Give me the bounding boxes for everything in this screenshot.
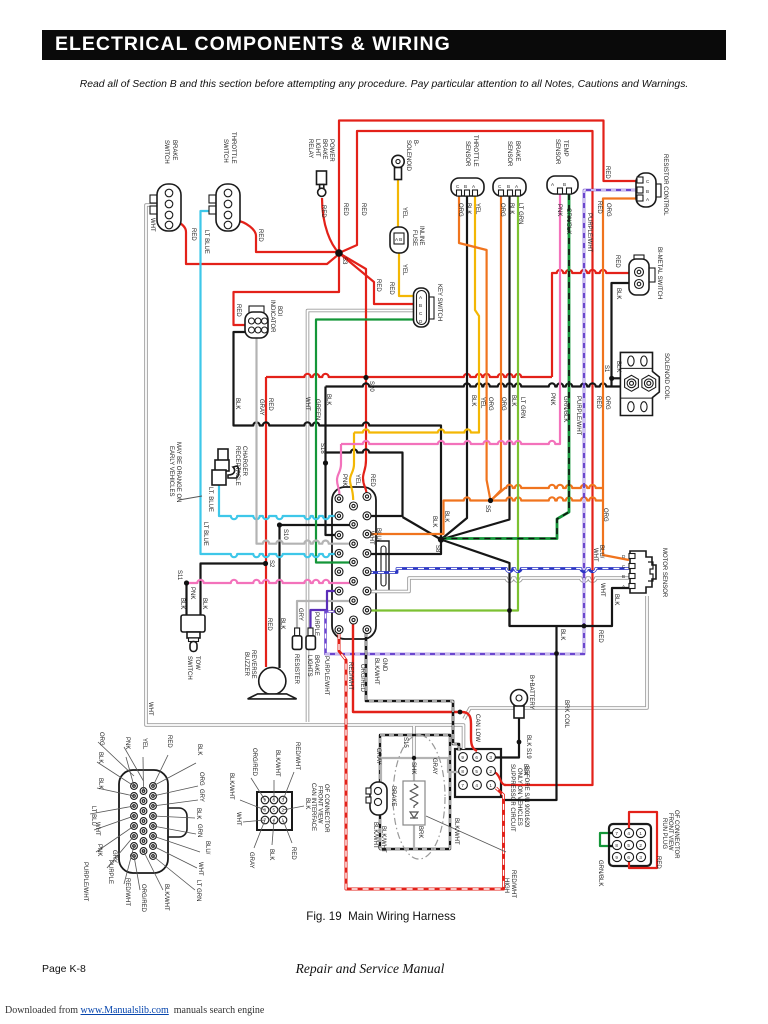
resistor control [636, 173, 661, 207]
svg-text:OF CONNECTOR: OF CONNECTOR [323, 784, 329, 833]
svg-text:ORG/RED: ORG/RED [359, 664, 365, 693]
wire GRAY/WHT pair into suppressor area (S15 feed) [412, 726, 416, 757]
wire GRAY main connector pin M6 to resister plug [297, 601, 351, 629]
svg-text:BLK: BLK [195, 808, 201, 819]
wire RED horizontal bus y=377 (S20) with hops [266, 374, 552, 377]
svg-text:INLINE: INLINE [418, 226, 424, 245]
wire ORG resistor control pin A down to motor sensor pin D [603, 199, 636, 561]
run plug body [609, 824, 651, 866]
svg-text:WHT: WHT [599, 583, 605, 597]
svg-text:WHT: WHT [149, 218, 155, 232]
svg-text:ORG: ORG [604, 396, 610, 410]
svg-text:GRAY: GRAY [258, 399, 264, 416]
svg-text:REVERSE: REVERSE [250, 650, 256, 679]
solenoid coil [620, 352, 659, 415]
svg-text:RED: RED [320, 205, 326, 218]
svg-text:YEL: YEL [141, 738, 147, 750]
wire BLK vertical x=326 through S18 to S10 bus, into pin L3 [326, 387, 338, 536]
svg-text:RED: RED [604, 166, 610, 179]
svg-text:S3: S3 [341, 257, 347, 265]
bi-metal switch [629, 255, 655, 295]
svg-text:BLK: BLK [97, 752, 103, 763]
CAN connector 3x3 [459, 753, 496, 790]
wire GRAY BDI indicator down, right along y=545 into pin M3 [257, 336, 351, 544]
svg-text:BLK: BLK [559, 629, 565, 640]
svg-text:BLK: BLK [443, 511, 449, 522]
wire WHT from brake switch down left side and along bottom to CAN pin 9 [146, 205, 464, 749]
node S18 [323, 460, 328, 465]
svg-text:BRAKE: BRAKE [390, 786, 396, 806]
svg-text:BRAKE: BRAKE [313, 655, 319, 675]
node org/red can low [458, 710, 463, 715]
wire RED top line 2: S3 to key-switch area line down right side to CAN connector [339, 131, 593, 785]
svg-text:RED: RED [597, 630, 603, 643]
inline fuse [390, 227, 408, 253]
node blk motor loop [582, 624, 587, 629]
wire BLK brake sensor down, diag to S8 [441, 196, 510, 540]
svg-text:PURPLE/WHT: PURPLE/WHT [82, 862, 88, 902]
svg-text:BRAKE: BRAKE [514, 141, 520, 161]
wire PURPLE/WHT resistor control pin B down x=584, left along y=654, up into pin L7 [326, 190, 637, 654]
svg-text:CHARGER: CHARGER [241, 446, 247, 477]
wire LT GRN brake sensor down then left into main connector pin R7 [368, 196, 518, 611]
svg-text:BLK: BLK [179, 598, 185, 609]
svg-text:PURPLE/WHT: PURPLE/WHT [575, 396, 581, 436]
node S8 [438, 536, 444, 542]
svg-text:YEL: YEL [474, 203, 480, 215]
svg-text:ONLY ON VEHICLES: ONLY ON VEHICLES [516, 768, 522, 826]
svg-text:9: 9 [615, 855, 618, 860]
svg-text:THROTTLE: THROTTLE [230, 132, 236, 164]
svg-text:B: B [563, 182, 566, 187]
svg-text:YEL: YEL [401, 264, 407, 276]
svg-text:BLK: BLK [201, 598, 207, 609]
svg-text:RED: RED [166, 735, 172, 748]
svg-text:TEMP: TEMP [562, 140, 568, 157]
svg-text:RED: RED [257, 229, 263, 242]
svg-text:6: 6 [475, 755, 478, 760]
svg-text:ORG: ORG [499, 203, 505, 217]
wire LT BLUE charger receptacle to pin L2 [219, 484, 335, 519]
svg-text:INDICATOR: INDICATOR [269, 300, 275, 333]
svg-text:RED: RED [614, 255, 620, 268]
svg-text:S2: S2 [268, 560, 274, 568]
main connector front view (bottom-left) [119, 770, 187, 873]
svg-text:LT BLUE: LT BLUE [202, 522, 208, 546]
brake connector (suppressor) [366, 782, 387, 815]
svg-text:PURPLE/WHT: PURPLE/WHT [323, 656, 329, 696]
wire GREEN key switch pin D to main connector pin M4 [316, 320, 414, 563]
svg-text:PURPLE: PURPLE [107, 860, 113, 884]
wire BLK battery to CAN pin 3 [493, 715, 519, 758]
svg-text:8: 8 [264, 808, 267, 813]
svg-text:B: B [464, 184, 467, 189]
svg-text:3: 3 [282, 798, 285, 803]
node blk/purple-wht crossing [554, 651, 559, 656]
svg-text:SOLENOID COIL: SOLENOID COIL [663, 353, 669, 400]
B- solenoid ring terminal [392, 155, 404, 179]
svg-text:THROTTLE: THROTTLE [472, 135, 478, 167]
wire PNK S11 to main connector pin M5 [187, 580, 352, 583]
svg-text:GRAY: GRAY [431, 758, 437, 775]
node S15 [412, 756, 416, 760]
svg-text:BRK COIL: BRK COIL [563, 700, 569, 729]
svg-text:OF CONNECTOR: OF CONNECTOR [673, 810, 679, 859]
svg-text:BLK: BLK [234, 398, 240, 409]
svg-text:RUN PLUG: RUN PLUG [661, 818, 667, 849]
svg-text:BRK: BRK [417, 826, 423, 838]
wire BLK S8 drop to pin R4 line [368, 540, 441, 555]
svg-text:GRN: GRN [196, 824, 202, 837]
throttle switch [209, 184, 240, 231]
brake sensor [493, 178, 526, 196]
svg-text:9: 9 [461, 755, 464, 760]
wire BLK branch y=452.5 to main connector pin R2, diag to S8 [326, 449, 403, 516]
svg-text:RED: RED [267, 398, 273, 411]
wire ORG upper branch y=488 from S5 [491, 485, 604, 501]
svg-text:3: 3 [639, 855, 642, 860]
svg-text:2: 2 [639, 843, 642, 848]
svg-text:BRAKE: BRAKE [171, 140, 177, 160]
svg-text:LIGHTS: LIGHTS [306, 655, 312, 677]
svg-text:BLK/WHT: BLK/WHT [228, 773, 234, 800]
svg-text:TOW: TOW [194, 656, 200, 670]
svg-text:GRY: GRY [297, 608, 303, 621]
svg-text:LT BLUE: LT BLUE [203, 230, 209, 254]
wire ORG throttle sensor to S5 [459, 196, 491, 501]
svg-text:PNK: PNK [189, 587, 195, 599]
wire YEL B- solenoid to inline fuse [397, 179, 399, 227]
wire WHT from main connector pin R6 to motor sensor pin B [367, 578, 629, 592]
svg-text:BUZZER: BUZZER [243, 652, 249, 677]
svg-text:LT GRN: LT GRN [195, 880, 201, 901]
svg-text:B-: B- [412, 140, 418, 146]
node on lt-grn at pin R7 line [507, 608, 512, 613]
svg-text:4: 4 [475, 783, 478, 788]
svg-text:SHK: SHK [410, 762, 416, 774]
wire RED S3 down through S20 to main connector pin R1 [339, 253, 367, 493]
svg-text:BI-METAL SWITCH: BI-METAL SWITCH [656, 247, 662, 299]
svg-text:RED: RED [595, 396, 601, 409]
svg-text:5: 5 [627, 843, 630, 848]
svg-text:1: 1 [639, 831, 642, 836]
node S19 [517, 740, 522, 745]
svg-text:WHT: WHT [592, 548, 598, 562]
B+ battery terminal [511, 690, 528, 719]
svg-text:RED: RED [655, 856, 661, 869]
svg-text:GND: GND [381, 658, 387, 672]
svg-text:BLK: BLK [196, 744, 202, 755]
brake switch [150, 184, 181, 231]
svg-text:BLK/WHT: BLK/WHT [453, 818, 459, 845]
svg-text:S18: S18 [319, 443, 325, 454]
run plug [612, 828, 645, 861]
svg-text:FUSE: FUSE [411, 230, 417, 246]
svg-text:GRY: GRY [198, 789, 204, 802]
wire ORG horizontal y=500.5 from connector pin R3 through S5 to right [368, 497, 603, 534]
svg-text:WHT: WHT [235, 812, 241, 826]
svg-text:YEL: YEL [401, 207, 407, 219]
svg-text:SENSOR: SENSOR [554, 139, 560, 165]
svg-text:PNK: PNK [549, 393, 555, 405]
wire ORG/RED CAN LOW: pin M7 down then right into CAN connector pin 6 [353, 622, 477, 751]
wire RED hook into CAN connector pin 2 [493, 772, 506, 785]
svg-text:BLK/WHT: BLK/WHT [380, 826, 386, 853]
svg-text:HIGH: HIGH [503, 878, 509, 893]
wire RED from bus up at x=552 to bi-metal switch pin [552, 270, 632, 377]
wire BLK motor sensor pin A loop to BRK coil and CAN pin 1 [510, 588, 640, 626]
svg-text:BLK: BLK [510, 395, 516, 406]
suppressor circuit dashed BLK/WHT rectangle [380, 735, 450, 849]
svg-text:BLK S19: BLK S19 [525, 735, 531, 759]
svg-text:BLK: BLK [613, 594, 619, 605]
svg-text:BLK: BLK [522, 764, 528, 775]
svg-text:PNK: PNK [96, 844, 102, 856]
svg-text:S11: S11 [176, 570, 182, 581]
svg-text:ORG: ORG [605, 203, 611, 217]
svg-text:S5: S5 [484, 505, 490, 513]
svg-text:BLK: BLK [325, 394, 331, 405]
resister plug [292, 628, 301, 649]
svg-text:RED: RED [190, 228, 196, 241]
wire WHT from motor sensor area down and left to CAN region [464, 596, 647, 719]
svg-text:GRY: GRY [111, 850, 117, 863]
svg-text:4: 4 [627, 831, 630, 836]
svg-text:RED: RED [596, 201, 602, 214]
wire RED run plug loop [629, 812, 657, 868]
svg-text:RED/WHT: RED/WHT [124, 878, 130, 906]
svg-text:RESISTER: RESISTER [293, 654, 299, 685]
svg-text:RED: RED [360, 203, 366, 216]
svg-text:2: 2 [489, 769, 492, 774]
svg-text:GRAY: GRAY [375, 748, 381, 765]
svg-text:ORG: ORG [500, 397, 506, 411]
wire RED/WHT CAN HIGH: pin L8 down, along bottom, up to CAN connector [339, 633, 504, 889]
node S2 [263, 561, 268, 566]
svg-text:ORG: ORG [487, 397, 493, 411]
svg-text:RED: RED [342, 203, 348, 216]
wire BLK S8 down-right diag to x=509.5, down to lt-grn junction and motor loop [441, 540, 510, 612]
svg-text:RED: RED [235, 304, 241, 317]
svg-text:PURPLE: PURPLE [313, 612, 319, 636]
svg-text:GRAY: GRAY [248, 852, 254, 869]
BDI indicator [245, 306, 268, 338]
svg-text:RECEPTACLE: RECEPTACLE [234, 446, 240, 486]
svg-text:S20: S20 [368, 381, 374, 392]
svg-text:5: 5 [475, 769, 478, 774]
svg-text:RED: RED [375, 279, 381, 292]
svg-text:3: 3 [489, 755, 492, 760]
svg-text:6: 6 [627, 855, 630, 860]
svg-text:BLK/WHT: BLK/WHT [373, 658, 379, 685]
svg-text:BLU/: BLU/ [598, 545, 604, 559]
svg-text:PNK: PNK [556, 204, 562, 216]
resistor box with zigzag and diode [403, 781, 425, 825]
svg-text:YEL: YEL [479, 397, 485, 409]
svg-text:RED: RED [369, 474, 375, 487]
wire GRAY suppressor S15 rail to CAN pin 8 [381, 758, 461, 772]
svg-text:RED: RED [388, 282, 394, 295]
svg-text:LT GRN: LT GRN [519, 397, 525, 418]
svg-text:CAN INTERFACE: CAN INTERFACE [310, 783, 316, 831]
svg-text:BLK: BLK [615, 288, 621, 299]
svg-text:B: B [622, 574, 625, 579]
wire RED top line 1: S3 up to resistor control pin C [339, 121, 636, 254]
wire GRN/BLK temp sensor down then left to S8 [441, 194, 569, 539]
svg-text:B: B [646, 189, 649, 194]
svg-text:ORG/RED: ORG/RED [140, 884, 146, 913]
wire BLK stub from lt-grn junction down to black loop [508, 610, 510, 626]
main harness connector body [376, 541, 389, 591]
CAN connector body [455, 749, 501, 797]
power brake light relay [317, 171, 327, 196]
svg-text:RED/WHT: RED/WHT [294, 742, 300, 770]
svg-text:SENSOR: SENSOR [464, 141, 470, 167]
svg-text:GREEN: GREEN [314, 399, 320, 420]
wire GRAY suppressor resistor leads [413, 758, 415, 848]
wire YEL inline fuse to key switch pin B [399, 252, 414, 296]
svg-text:ORG: ORG [457, 203, 463, 217]
svg-text:S8: S8 [434, 545, 440, 553]
svg-text:YEL: YEL [354, 474, 360, 486]
svg-text:BRAKE: BRAKE [321, 139, 327, 159]
svg-text:GRN/BLK: GRN/BLK [562, 396, 568, 422]
svg-text:SWITCH: SWITCH [186, 656, 192, 680]
wire BLK tow switch to S2 [201, 564, 266, 617]
wire BLK bi-metal switch down to S1 and solenoid coil [612, 283, 631, 386]
suppressor dash-dot oval [393, 735, 445, 859]
svg-text:LT GRN: LT GRN [517, 203, 523, 224]
svg-text:LT. BLUE: LT. BLUE [207, 487, 213, 512]
wire WHT from key switch pin C down to bottom run [308, 311, 415, 723]
svg-text:EARLY VEHICLES: EARLY VEHICLES [168, 446, 174, 496]
wire BLK bus y=386 from corner to solenoid coil [326, 383, 622, 386]
svg-text:SENSOR: SENSOR [506, 141, 512, 167]
svg-text:WHT: WHT [147, 702, 153, 716]
wire BLK throttle sensor down, diag to S8 [441, 196, 467, 540]
svg-text:S15: S15 [402, 737, 408, 748]
wire RED throttle switch to S3 [235, 220, 337, 252]
svg-text:BLK/WHT: BLK/WHT [163, 884, 169, 911]
svg-text:POWER: POWER [328, 139, 334, 162]
svg-text:RELAY: RELAY [307, 139, 313, 158]
throttle sensor [451, 178, 484, 196]
node S1 [609, 376, 614, 381]
svg-text:RED: RED [266, 618, 272, 631]
svg-text:RED/WHT: RED/WHT [510, 870, 516, 898]
wire BLK S10 bus into pin M2 [280, 524, 352, 526]
svg-text:GRN/BLK: GRN/BLK [597, 860, 603, 886]
svg-text:ORG: ORG [98, 732, 104, 746]
charger receptacle [212, 449, 239, 485]
wire BLU/WHT main connector pin R5 to motor sensor pin C [367, 569, 630, 573]
wire YEL throttle sensor down to main connector pin M1 [350, 196, 479, 500]
svg-text:PNK: PNK [341, 474, 347, 486]
svg-text:BLK: BLK [431, 516, 437, 527]
svg-text:LIGHT: LIGHT [314, 139, 320, 157]
node S3 [335, 249, 343, 257]
svg-text:BLK/WHT: BLK/WHT [372, 822, 378, 849]
wire PNK temp sensor down, left along y=444 into pin L1 [337, 194, 560, 495]
svg-text:SUPPRESSOR CIRCUIT: SUPPRESSOR CIRCUIT [509, 764, 515, 832]
temp sensor [547, 176, 578, 194]
wire GRN/BLK run plug loop [600, 833, 617, 846]
key switch [414, 288, 435, 327]
svg-text:FRONT VIEW: FRONT VIEW [667, 813, 673, 851]
svg-text:8: 8 [461, 769, 464, 774]
svg-text:A B: A B [395, 237, 402, 242]
svg-text:KEY SWITCH: KEY SWITCH [436, 284, 442, 321]
wire BLK BDI indicator down then right along y=425.5, corner down to S8 [234, 332, 442, 539]
svg-text:PURPLE/WHT: PURPLE/WHT [586, 213, 592, 253]
wire BLK tow switch to S11 [185, 583, 187, 616]
svg-text:5: 5 [273, 808, 276, 813]
svg-text:BLU/: BLU/ [204, 841, 210, 855]
node S10 [277, 522, 282, 527]
svg-text:7: 7 [461, 783, 464, 788]
front view connector callout lines [90, 742, 200, 890]
svg-text:ORG/RED: ORG/RED [251, 748, 257, 777]
svg-text:MAY BE ORANGE ON: MAY BE ORANGE ON [175, 442, 181, 502]
wire RED power brake light relay to node S3 [322, 198, 339, 253]
svg-text:WHT: WHT [368, 531, 374, 545]
svg-text:S10: S10 [282, 529, 288, 540]
node S5 [488, 498, 493, 503]
wire ORG brake sensor to S5 [492, 196, 502, 500]
svg-text:BLK: BLK [97, 778, 103, 789]
svg-text:ORG: ORG [602, 508, 608, 522]
tow switch [181, 615, 205, 652]
svg-text:BLK: BLK [470, 395, 476, 406]
wire RED S3 to BDI indicator [234, 253, 340, 325]
svg-text:7: 7 [615, 831, 618, 836]
svg-text:FRONT VIEW: FRONT VIEW [317, 786, 323, 824]
svg-text:RED/WHT: RED/WHT [347, 662, 353, 690]
svg-text:RESISTOR CONTROL: RESISTOR CONTROL [662, 154, 668, 216]
wire RED bus corner down to reverse buzzer [265, 377, 267, 667]
svg-text:WHT: WHT [197, 862, 203, 876]
svg-text:GRN/BLK: GRN/BLK [565, 208, 571, 234]
motor sensor [622, 551, 656, 593]
svg-text:SWITCH: SWITCH [163, 140, 169, 164]
svg-text:1: 1 [489, 783, 492, 788]
reverse buzzer [248, 667, 297, 699]
svg-text:CAN LOW: CAN LOW [474, 714, 480, 742]
svg-text:BLK: BLK [268, 849, 274, 860]
wire LT BLUE throttle switch down, right along y=554 into pin L4 [201, 211, 338, 557]
svg-text:ORG: ORG [198, 772, 204, 786]
svg-text:MOTOR SENSOR: MOTOR SENSOR [661, 548, 667, 598]
svg-text:BLK: BLK [465, 203, 471, 214]
wire PURPLE pin L6 to brake lights plug [311, 591, 339, 629]
svg-text:SOLENOID: SOLENOID [405, 140, 411, 172]
svg-text:8: 8 [615, 843, 618, 848]
wire RED S3 to key switch pin A [339, 253, 414, 304]
svg-text:PNK: PNK [124, 737, 130, 749]
svg-text:BLK: BLK [508, 203, 514, 214]
node S20 [363, 375, 368, 380]
main harness connector (center) [335, 493, 371, 634]
wire BLK S10 down to reverse buzzer [278, 525, 280, 668]
svg-text:B: B [507, 184, 510, 189]
svg-text:BLK: BLK [304, 798, 310, 809]
svg-text:BLK: BLK [279, 618, 285, 629]
svg-text:LT BLU: LT BLU [90, 806, 96, 826]
wire GND BLK/WHT: pin R8 down then right into CAN connector pin 9 [366, 632, 459, 751]
brake lights plug [306, 628, 315, 649]
svg-text:BDI: BDI [276, 306, 282, 316]
svg-text:SWITCH: SWITCH [222, 139, 228, 163]
